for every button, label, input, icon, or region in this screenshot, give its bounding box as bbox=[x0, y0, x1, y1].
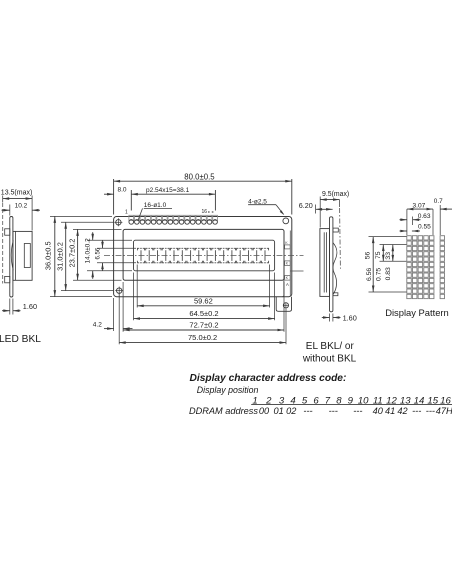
svg-text:6.20: 6.20 bbox=[299, 201, 313, 210]
svg-text:9.5(max): 9.5(max) bbox=[322, 191, 349, 198]
svg-text:4.2: 4.2 bbox=[93, 322, 102, 329]
svg-text:---: --- bbox=[426, 406, 435, 416]
bezel tab top bbox=[5, 229, 10, 235]
svg-text:0.55: 0.55 bbox=[418, 224, 431, 231]
electrode pad K2 bbox=[285, 261, 291, 266]
pin hole 16 bbox=[213, 220, 218, 225]
projection line window bottom bbox=[290, 270, 303, 272]
svg-text:8.0: 8.0 bbox=[118, 186, 127, 193]
svg-text:---: --- bbox=[303, 406, 312, 416]
svg-text:01: 01 bbox=[273, 406, 283, 416]
centerline dash-dot right view bbox=[339, 208, 342, 269]
pin hole 1 bbox=[129, 220, 134, 225]
electrode pad K1 bbox=[285, 245, 291, 249]
svg-text:1.60: 1.60 bbox=[343, 314, 357, 323]
side view PCB bar bbox=[10, 217, 13, 298]
svg-text:EL BKL/ or: EL BKL/ or bbox=[306, 341, 355, 352]
svg-text:80.0±0.5: 80.0±0.5 bbox=[184, 172, 215, 181]
bezel tab bottom bbox=[5, 276, 10, 282]
svg-text:31.0±0.2: 31.0±0.2 bbox=[56, 242, 65, 271]
svg-text:47H: 47H bbox=[436, 406, 452, 416]
EL inner line 2 bbox=[326, 232, 328, 292]
pin pad 15 bbox=[207, 215, 212, 220]
EL inner line 1 bbox=[323, 232, 325, 292]
EL wavy wire bbox=[333, 243, 337, 295]
pin hole 2 bbox=[135, 220, 140, 225]
bezel frame 72.7x23.7 bbox=[123, 229, 284, 280]
mounting hole top-left bbox=[116, 220, 121, 225]
electrode pad K3 bbox=[285, 276, 291, 281]
pin pad 7 bbox=[162, 215, 167, 220]
svg-text:1: 1 bbox=[125, 210, 128, 216]
svg-text:16: 16 bbox=[202, 209, 208, 215]
dimension 31.0±0.2 bbox=[61, 221, 114, 223]
vertical dimension 0.83 bbox=[392, 245, 394, 262]
pin hole 6 bbox=[157, 220, 162, 225]
svg-text:---: --- bbox=[412, 406, 421, 416]
svg-text:Display position: Display position bbox=[197, 385, 259, 395]
pin hole 12 bbox=[190, 220, 195, 225]
svg-text:40: 40 bbox=[373, 406, 384, 416]
pin pad 14 bbox=[202, 215, 207, 220]
svg-text:64.5±0.2: 64.5±0.2 bbox=[189, 309, 218, 318]
LED lens rect bbox=[24, 244, 30, 268]
horizontal centerline bbox=[104, 255, 304, 257]
pin pad 13 bbox=[196, 215, 201, 220]
pin hole 3 bbox=[140, 220, 145, 225]
pin pad 12 bbox=[190, 215, 195, 220]
dimension chain 8.0 / p2.54x15=38.1 bbox=[130, 190, 132, 211]
dimension 4.2 bbox=[113, 298, 115, 331]
svg-text:p2.54x15=38.1: p2.54x15=38.1 bbox=[146, 187, 190, 194]
dimension 1.60 left view bbox=[9, 299, 11, 315]
svg-text:without BKL: without BKL bbox=[302, 353, 357, 364]
pin hole 7 bbox=[162, 220, 167, 225]
svg-text:02: 02 bbox=[286, 406, 296, 416]
mounting hole top-right bbox=[283, 218, 289, 224]
pin pad 9 bbox=[174, 215, 179, 220]
mounting hole bottom-left bbox=[117, 288, 122, 293]
svg-text:Display Pattern: Display Pattern bbox=[385, 307, 449, 318]
dot matrix right column bbox=[440, 236, 444, 240]
dimension 1.60 right view bbox=[329, 314, 331, 322]
dimension 14.0±0.2 bbox=[87, 239, 132, 241]
front view PCB outline 80.0x36.0 bbox=[114, 217, 292, 297]
pin pad 10 bbox=[179, 215, 184, 220]
svg-text:16-ø1.0: 16-ø1.0 bbox=[144, 202, 167, 209]
svg-text:14.0±0.2: 14.0±0.2 bbox=[84, 238, 91, 264]
pin hole 4 bbox=[146, 220, 151, 225]
svg-text:---: --- bbox=[353, 406, 362, 416]
svg-text:72.7±0.2: 72.7±0.2 bbox=[189, 321, 218, 330]
svg-text:0.63: 0.63 bbox=[418, 213, 431, 220]
pin pad 1 bbox=[129, 215, 134, 220]
pin hole 8 bbox=[168, 220, 173, 225]
svg-text:6.56: 6.56 bbox=[366, 268, 373, 281]
svg-text:Display character address code: Display character address code: bbox=[190, 373, 347, 384]
dot matrix 5x12 bbox=[407, 236, 412, 240]
pin hole 10 bbox=[179, 220, 184, 225]
dimension 36.0±0.5 bbox=[50, 215, 112, 217]
svg-text:33: 33 bbox=[385, 252, 392, 260]
pin hole 15 bbox=[207, 220, 212, 225]
svg-text:41: 41 bbox=[385, 406, 395, 416]
svg-text:75: 75 bbox=[375, 251, 382, 259]
backlight body bbox=[13, 231, 32, 280]
LED arc bbox=[11, 241, 13, 271]
max envelope dashed line bbox=[2, 203, 4, 284]
pin pad 16 bbox=[213, 215, 218, 220]
vertical dimension 6.56 bbox=[369, 236, 407, 238]
svg-text:A: A bbox=[286, 282, 289, 287]
side view PCB bar right bbox=[330, 217, 333, 312]
pin pad 2 bbox=[134, 215, 139, 220]
tab top right view bbox=[333, 228, 338, 232]
dimension 75.0±0.2 bbox=[118, 294, 120, 345]
pin pad 4 bbox=[146, 215, 151, 220]
svg-text:56: 56 bbox=[364, 252, 371, 260]
tab bottom right view bbox=[333, 293, 338, 296]
dimension 80.0±0.5 bbox=[113, 179, 115, 215]
svg-text:3.07: 3.07 bbox=[413, 202, 426, 209]
svg-text:0.83: 0.83 bbox=[385, 267, 392, 280]
mounting hole bottom-right bbox=[283, 303, 288, 308]
vertical dimension 0.75 bbox=[380, 244, 407, 246]
pin hole 14 bbox=[202, 220, 207, 225]
svg-text:0.7: 0.7 bbox=[434, 198, 443, 205]
svg-text:13.5(max): 13.5(max) bbox=[1, 190, 33, 197]
EL tab bottom-right with mounting hole bbox=[276, 297, 291, 312]
pin hole 9 bbox=[174, 220, 179, 225]
dimension 64.5±0.2 bbox=[133, 273, 135, 321]
svg-text:6.56: 6.56 bbox=[95, 247, 101, 259]
svg-text:DDRAM address: DDRAM address bbox=[189, 406, 258, 416]
svg-text:59.62: 59.62 bbox=[194, 296, 213, 305]
svg-text:42: 42 bbox=[397, 406, 407, 416]
svg-text:---: --- bbox=[329, 406, 338, 416]
pin hole 13 bbox=[196, 220, 201, 225]
svg-text:LED BKL: LED BKL bbox=[0, 334, 41, 345]
svg-text:23.7±0.2: 23.7±0.2 bbox=[67, 239, 76, 268]
display window 64.5x14.0 bbox=[134, 240, 275, 271]
svg-text:1.60: 1.60 bbox=[23, 302, 37, 311]
table rule bbox=[251, 404, 452, 406]
dimension 6.56 bbox=[97, 247, 136, 249]
EL electrode strip bbox=[283, 280, 285, 295]
pin hole 11 bbox=[185, 220, 190, 225]
svg-text:00: 00 bbox=[259, 406, 270, 416]
dimension 23.7±0.2 bbox=[73, 228, 122, 230]
pin pad 3 bbox=[140, 215, 145, 220]
pin hole 5 bbox=[151, 220, 156, 225]
body inner line bbox=[14, 231, 16, 280]
pin pad 6 bbox=[157, 215, 162, 220]
character row: 16 cells bbox=[137, 248, 144, 250]
svg-text:0.75: 0.75 bbox=[376, 268, 383, 281]
pin pad 5 bbox=[151, 215, 156, 220]
svg-text:75.0±0.2: 75.0±0.2 bbox=[188, 333, 217, 342]
svg-text:36.0±0.5: 36.0±0.5 bbox=[44, 241, 53, 270]
dimension 59.62 bbox=[136, 265, 138, 308]
svg-text:10.2: 10.2 bbox=[15, 203, 28, 210]
pin pad 8 bbox=[168, 215, 173, 220]
pin pad 11 bbox=[185, 215, 190, 220]
EL panel body bbox=[320, 229, 330, 297]
dimension 72.7±0.2 bbox=[122, 282, 124, 332]
